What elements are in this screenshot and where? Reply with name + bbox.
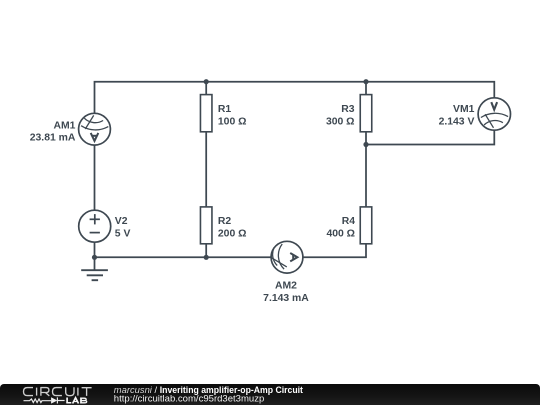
- svg-text:http://circuitlab.com/c95rd3et: http://circuitlab.com/c95rd3et3muzp: [114, 393, 265, 403]
